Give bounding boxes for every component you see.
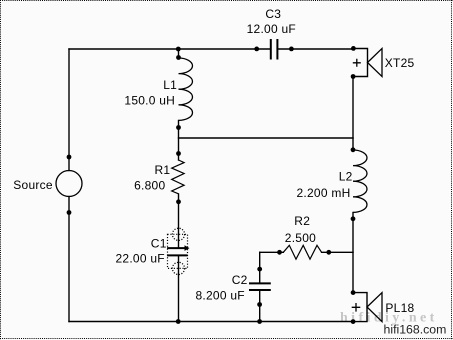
XT25 plus terminal mark: [353, 59, 361, 67]
wire R2 right to L2/PL18 vertical: [322, 251, 353, 253]
node XT25 minus terminal: [351, 74, 356, 79]
node XT25 plus terminal: [351, 46, 356, 51]
node source bottom terminal: [67, 210, 72, 215]
node R1 top terminal: [176, 151, 181, 156]
resistor R2: [283, 245, 321, 259]
inductor L2: [353, 150, 367, 212]
junction node on top wire above L1: [176, 47, 181, 52]
wire C2 riser (R2 wire corner down to C2 top): [259, 252, 261, 283]
wire top horizontal (C3 right plate to XT25): [278, 48, 354, 50]
capacitor C3: [271, 39, 278, 60]
node L2 bottom terminal: [351, 216, 356, 221]
wire C2 bottom stem to bottom wire: [259, 290, 261, 322]
wire bottom horizontal: [69, 321, 353, 323]
svg-text:C2: C2: [232, 273, 248, 287]
svg-text:L1: L1: [163, 78, 177, 92]
node R2 right terminal: [326, 250, 331, 255]
wire L1 top stem: [178, 49, 180, 58]
wire XT25 right vertical down to mid wire and L2: [352, 77, 354, 151]
node L2 top terminal: [351, 147, 356, 152]
speaker PL18 (woofer): [352, 293, 382, 322]
capacitor C2: [249, 283, 271, 290]
wire C1 bottom stem to bottom wire: [178, 256, 180, 322]
wire L1 bottom stem through mid junction to R1: [178, 121, 180, 161]
C1 selection handle bottom: [172, 262, 184, 274]
node R1 bottom terminal: [176, 199, 181, 204]
svg-text:C3: C3: [265, 7, 281, 21]
svg-text:2.200 mH: 2.200 mH: [297, 186, 351, 200]
svg-text:Source: Source: [13, 178, 53, 192]
svg-text:150.0 uH: 150.0 uH: [124, 94, 175, 108]
junction node on bottom wire below C2: [257, 319, 262, 324]
svg-text:PL18: PL18: [385, 301, 414, 315]
svg-text:C1: C1: [151, 237, 167, 251]
PL18 plus terminal mark: [352, 303, 361, 312]
svg-text:2.500: 2.500: [285, 231, 316, 245]
svg-text:XT25: XT25: [385, 56, 415, 70]
node source top terminal: [67, 155, 72, 160]
svg-text:12.00 uF: 12.00 uF: [247, 22, 296, 36]
svg-text:hifi168.com: hifi168.com: [384, 323, 447, 337]
wire left vertical (source bottom to bottom wire corner): [68, 197, 70, 322]
svg-text:22.00 uF: 22.00 uF: [116, 252, 165, 266]
wire top horizontal (source to C3 left plate): [69, 48, 270, 50]
speaker XT25 (tweeter): [353, 49, 382, 77]
node C2 top terminal: [257, 267, 262, 272]
node R2 left terminal: [277, 250, 282, 255]
capacitor C1 (selected): [167, 228, 189, 274]
voltage source "Source": [56, 171, 82, 197]
C1 selection handle top: [172, 228, 184, 240]
wire R1 bottom stem to C1 top handle: [178, 194, 180, 248]
node PL18 minus terminal: [351, 319, 356, 324]
svg-text:6.800: 6.800: [134, 179, 165, 193]
C1 selection arrow on top plate: [185, 245, 190, 251]
node PL18 plus terminal: [351, 290, 356, 295]
wire L2 bottom stem through R2 node to PL18: [352, 213, 354, 293]
wire mid horizontal (L1/R1 node to L2 node): [179, 137, 354, 139]
wire R2 left branch from C2 riser: [260, 251, 284, 253]
resistor R1: [172, 160, 184, 194]
C1 selection dotted box: [168, 234, 188, 268]
node L1 top terminal: [176, 55, 181, 60]
wire left vertical (top corner to source top): [68, 49, 70, 171]
inductor L1: [179, 58, 193, 120]
node C2 bottom terminal: [257, 302, 262, 307]
svg-text:L2: L2: [339, 169, 353, 183]
svg-text:R2: R2: [294, 214, 310, 228]
junction node on bottom wire below C1: [176, 319, 181, 324]
node C3 right terminal: [289, 47, 294, 52]
node C3 left terminal: [254, 47, 259, 52]
svg-text:R1: R1: [155, 163, 171, 177]
node L1 bottom terminal: [176, 125, 181, 130]
svg-text:8.200 uF: 8.200 uF: [196, 288, 245, 302]
